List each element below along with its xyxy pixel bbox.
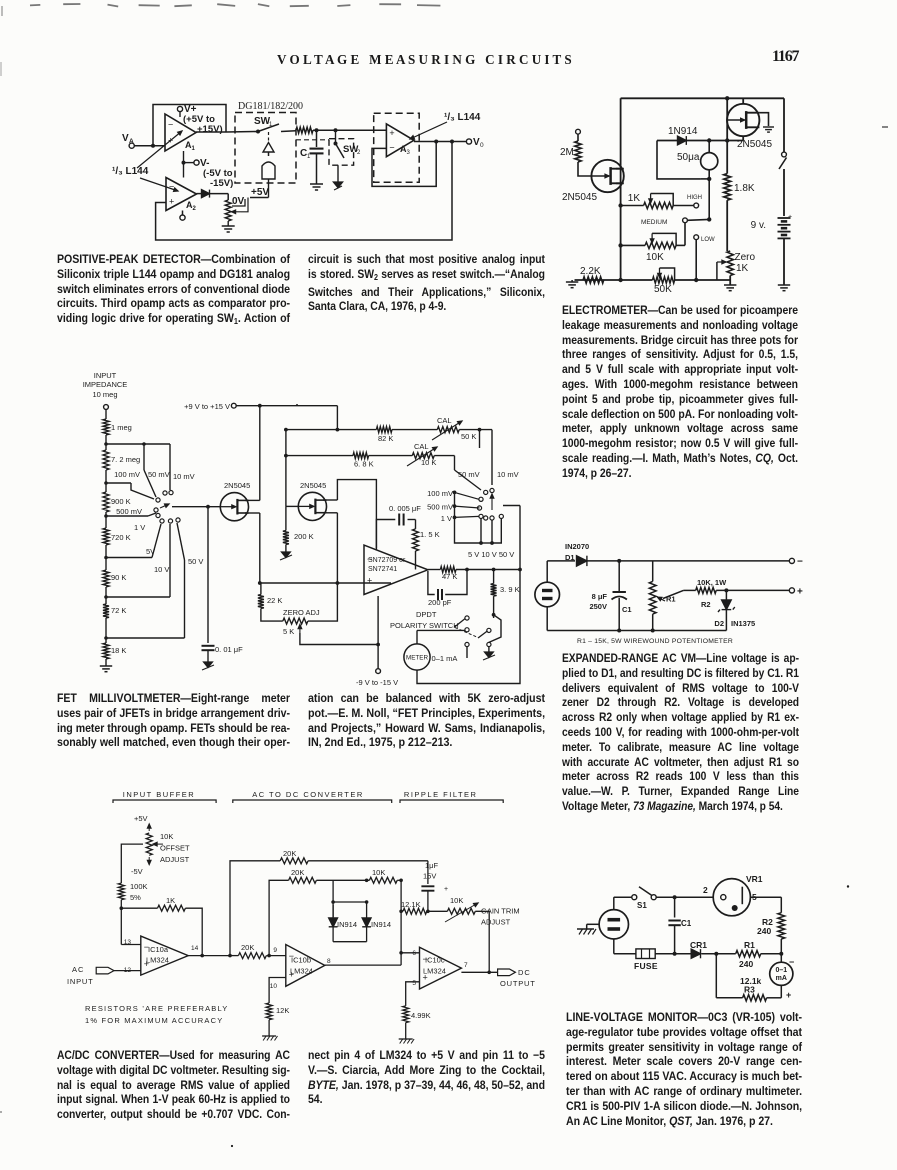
svg-text:0. 005 μF: 0. 005 μF (389, 504, 421, 513)
svg-text:20K: 20K (283, 849, 296, 858)
svg-text:500 mV: 500 mV (116, 507, 142, 516)
svg-text:LM324: LM324 (146, 956, 169, 965)
svg-text:IN914: IN914 (371, 920, 391, 929)
svg-text:9 v.: 9 v. (751, 220, 766, 231)
svg-text:7: 7 (464, 962, 468, 969)
svg-text:LM324: LM324 (423, 967, 446, 976)
svg-text:R2: R2 (701, 600, 711, 609)
svg-text:1μF: 1μF (425, 861, 438, 870)
svg-text:+: + (797, 587, 803, 598)
svg-text:−: − (169, 182, 174, 192)
svg-text:+15V): +15V) (197, 124, 223, 135)
svg-text:C1: C1 (681, 919, 692, 928)
svg-text:R1: R1 (744, 940, 755, 950)
svg-text:¹/₃ L144: ¹/₃ L144 (444, 112, 481, 123)
svg-text:50 mV: 50 mV (148, 470, 170, 479)
svg-text:¹/₃ L144: ¹/₃ L144 (112, 166, 149, 177)
svg-text:2M: 2M (560, 147, 574, 158)
svg-text:1 meg: 1 meg (111, 423, 132, 432)
svg-text:2N5045: 2N5045 (224, 481, 250, 490)
svg-text:250V: 250V (589, 602, 607, 611)
svg-text:500 mV: 500 mV (427, 503, 453, 512)
svg-text:18 K: 18 K (111, 646, 126, 655)
svg-text:2N5045: 2N5045 (737, 139, 772, 150)
svg-text:2: 2 (357, 150, 361, 156)
svg-text:2: 2 (703, 885, 708, 895)
svg-text:LOW: LOW (701, 237, 715, 243)
svg-text:V: V (473, 137, 480, 148)
svg-text:47 K: 47 K (442, 572, 457, 581)
svg-text:14: 14 (191, 945, 199, 952)
svg-text:1K: 1K (736, 263, 749, 274)
svg-text:IC10b: IC10b (291, 956, 311, 965)
svg-text:VR1: VR1 (746, 874, 763, 884)
svg-text:ADJUST: ADJUST (481, 918, 511, 927)
svg-text:RIPPLE FILTER: RIPPLE FILTER (404, 790, 478, 799)
svg-text:8 μF: 8 μF (592, 592, 608, 601)
svg-text:0: 0 (480, 142, 484, 149)
svg-text:5%: 5% (130, 893, 141, 902)
svg-text:22 K: 22 K (267, 596, 282, 605)
svg-text:200 K: 200 K (294, 532, 314, 541)
svg-text:+: + (367, 576, 372, 586)
svg-text:10 meg: 10 meg (92, 390, 117, 399)
svg-text:D2: D2 (714, 619, 724, 628)
svg-text:R3: R3 (744, 985, 755, 995)
svg-text:10 mV: 10 mV (173, 472, 195, 481)
svg-text:+: + (389, 128, 394, 138)
svg-text:INPUT BUFFER: INPUT BUFFER (123, 790, 195, 799)
svg-text:-15V): -15V) (210, 178, 233, 189)
svg-text:3: 3 (407, 150, 411, 156)
svg-text:+5V: +5V (251, 187, 269, 198)
svg-text:-9 V to -15 V: -9 V to -15 V (356, 678, 398, 687)
svg-text:HIGH: HIGH (687, 195, 702, 201)
svg-text:10 K: 10 K (421, 458, 436, 467)
svg-text:−: − (168, 119, 173, 129)
svg-text:INPUT: INPUT (94, 371, 117, 380)
svg-text:CAL: CAL (437, 416, 452, 425)
svg-text:5V: 5V (146, 547, 155, 556)
svg-text:720 K: 720 K (111, 533, 131, 542)
svg-text:2: 2 (193, 206, 197, 212)
svg-text:72 K: 72 K (111, 606, 126, 615)
svg-text:82 K: 82 K (378, 434, 393, 443)
svg-text:OFFSET: OFFSET (160, 844, 190, 853)
svg-text:50μa: 50μa (677, 152, 700, 163)
svg-text:10K: 10K (450, 896, 463, 905)
svg-text:50 V: 50 V (188, 557, 203, 566)
svg-text:ADJUST: ADJUST (160, 855, 190, 864)
svg-text:10 mV: 10 mV (497, 470, 519, 479)
svg-text:−: − (789, 957, 794, 967)
svg-text:1. 5 K: 1. 5 K (420, 530, 440, 539)
svg-text:9: 9 (273, 947, 277, 954)
svg-text:+: + (169, 196, 174, 206)
svg-text:POLARITY SWITCH: POLARITY SWITCH (390, 621, 459, 630)
svg-text:1.8K: 1.8K (734, 183, 755, 194)
svg-text:0. 01 μF: 0. 01 μF (215, 645, 243, 654)
svg-text:IN1375: IN1375 (731, 619, 755, 628)
svg-text:10K, 1W: 10K, 1W (697, 578, 727, 587)
svg-text:8: 8 (327, 958, 331, 965)
svg-text:SN72709 or: SN72709 or (368, 557, 406, 564)
svg-text:INPUT: INPUT (67, 977, 94, 986)
svg-text:FUSE: FUSE (634, 961, 658, 971)
svg-text:CR1: CR1 (690, 940, 707, 950)
svg-text:+: + (786, 990, 791, 1000)
svg-text:AC: AC (72, 965, 84, 974)
svg-text:CAL: CAL (414, 442, 429, 451)
svg-text:+5V: +5V (134, 814, 148, 823)
svg-text:10K: 10K (160, 832, 173, 841)
svg-text:IN914: IN914 (337, 920, 357, 929)
svg-text:90 K: 90 K (111, 573, 126, 582)
svg-text:2N5045: 2N5045 (300, 481, 326, 490)
svg-text:mA: mA (776, 975, 787, 982)
svg-text:10: 10 (270, 983, 278, 990)
svg-text:1K: 1K (628, 193, 641, 204)
svg-text:C1: C1 (622, 605, 632, 614)
svg-text:RESISTORS ’ARE PREFERABLY: RESISTORS ’ARE PREFERABLY (85, 1004, 229, 1013)
svg-text:IN2070: IN2070 (565, 542, 589, 551)
svg-text:IMPEDANCE: IMPEDANCE (83, 380, 128, 389)
svg-text:SN72741: SN72741 (368, 566, 397, 573)
svg-text:50 mV: 50 mV (458, 470, 480, 479)
svg-text:100 mV: 100 mV (427, 489, 453, 498)
svg-text:−: − (797, 557, 803, 568)
svg-text:1: 1 (192, 146, 196, 152)
svg-text:1K: 1K (166, 896, 175, 905)
svg-text:6. 8 K: 6. 8 K (354, 460, 374, 469)
svg-text:200 pF: 200 pF (428, 598, 452, 607)
svg-text:METER: METER (406, 655, 428, 662)
svg-text:240: 240 (757, 926, 771, 936)
svg-text:-5V: -5V (131, 867, 143, 876)
svg-text:3. 9 K: 3. 9 K (500, 585, 520, 594)
svg-text:4.99K: 4.99K (411, 1011, 431, 1020)
svg-text:12K: 12K (276, 1006, 289, 1015)
svg-text:DG181/182/200: DG181/182/200 (238, 101, 303, 112)
svg-text:1 V: 1 V (441, 514, 452, 523)
svg-text:0–1 mA: 0–1 mA (432, 654, 458, 663)
svg-text:2.2K: 2.2K (580, 266, 601, 277)
svg-text:6: 6 (412, 950, 416, 957)
svg-text:1 V: 1 V (134, 523, 145, 532)
svg-text:10 V: 10 V (154, 565, 169, 574)
svg-text:V: V (122, 133, 129, 144)
svg-text:20K: 20K (241, 943, 254, 952)
svg-text:1N914: 1N914 (668, 126, 698, 137)
svg-text:AC TO DC CONVERTER: AC TO DC CONVERTER (252, 790, 364, 799)
svg-text:1: 1 (307, 154, 311, 160)
svg-text:50K: 50K (654, 284, 672, 295)
svg-text:100 mV: 100 mV (114, 470, 140, 479)
svg-text:20K: 20K (291, 868, 304, 877)
svg-text:10K: 10K (646, 252, 664, 263)
svg-text:IC10a: IC10a (148, 945, 169, 954)
svg-text:7. 2 meg: 7. 2 meg (111, 455, 140, 464)
svg-text:5: 5 (412, 980, 416, 987)
svg-text:2N5045: 2N5045 (562, 192, 597, 203)
svg-text:R1 – 15K, 5W WIREWOUND POTENTI: R1 – 15K, 5W WIREWOUND POTENTIOMETER (577, 638, 733, 645)
svg-text:DPDT: DPDT (416, 610, 437, 619)
svg-text:5 V 10 V 50 V: 5 V 10 V 50 V (468, 550, 514, 559)
svg-text:+9 V to +15 V: +9 V to +15 V (184, 402, 230, 411)
svg-text:100K: 100K (130, 882, 148, 891)
svg-text:240: 240 (739, 959, 753, 969)
svg-text:MEDIUM: MEDIUM (641, 219, 667, 226)
svg-text:LM324: LM324 (290, 967, 313, 976)
svg-text:1% FOR MAXIMUM ACCURACY: 1% FOR MAXIMUM ACCURACY (85, 1016, 223, 1025)
svg-text:DC: DC (518, 968, 531, 977)
svg-text:10K: 10K (372, 868, 385, 877)
svg-text:900 K: 900 K (111, 497, 131, 506)
svg-text:Zero: Zero (735, 252, 756, 263)
svg-text:ZERO ADJ: ZERO ADJ (283, 608, 320, 617)
svg-text:OUTPUT: OUTPUT (500, 979, 536, 988)
svg-text:S1: S1 (637, 901, 647, 910)
svg-text:+: + (444, 886, 448, 893)
svg-text:A: A (129, 138, 134, 145)
svg-text:5 K: 5 K (283, 627, 294, 636)
svg-text:0–1: 0–1 (775, 967, 787, 974)
svg-text:13: 13 (124, 939, 132, 946)
svg-text:IC10c: IC10c (425, 956, 445, 965)
svg-text:50 K: 50 K (461, 432, 476, 441)
svg-text:−: − (389, 143, 394, 153)
svg-text:15V: 15V (423, 872, 436, 881)
